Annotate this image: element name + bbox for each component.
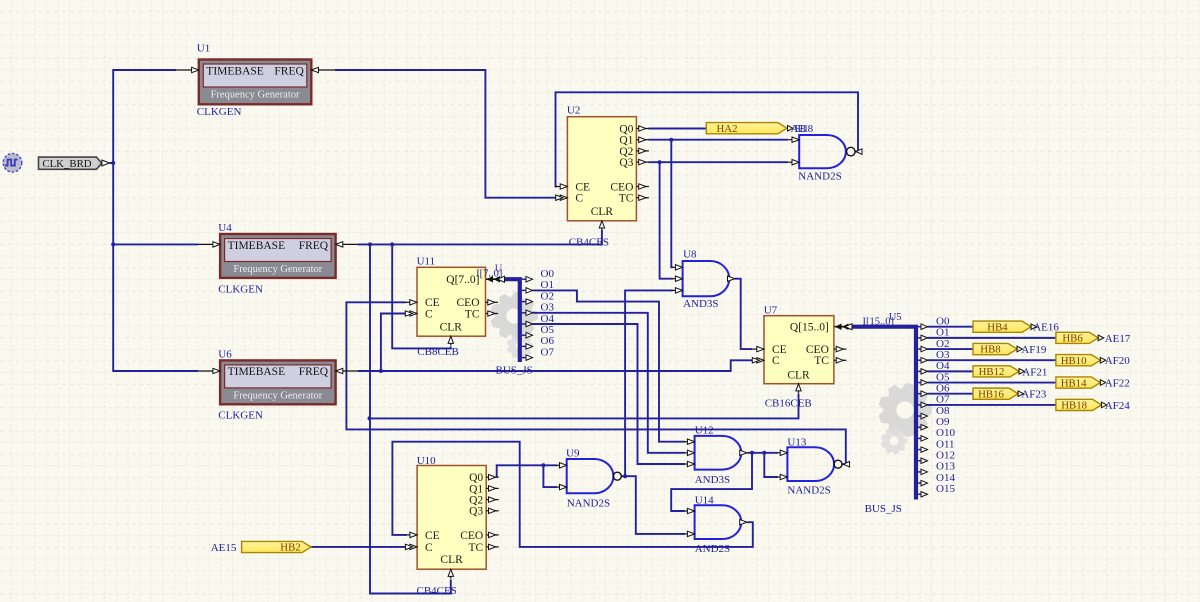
svg-text:TC: TC (814, 355, 829, 367)
svg-text:TIMEBASE: TIMEBASE (206, 65, 263, 77)
svg-text:BUS_JS: BUS_JS (865, 503, 902, 515)
svg-text:CLR: CLR (787, 370, 810, 382)
svg-text:CLKGEN: CLKGEN (197, 106, 242, 118)
svg-text:Frequency Generator: Frequency Generator (211, 90, 300, 101)
svg-text:C: C (425, 542, 433, 554)
svg-text:U2: U2 (567, 105, 580, 117)
svg-text:HB10: HB10 (1061, 355, 1087, 367)
svg-text:HB4: HB4 (987, 321, 1008, 333)
svg-text:Frequency Generator: Frequency Generator (233, 264, 322, 275)
svg-text:O0: O0 (541, 268, 555, 280)
svg-text:U10: U10 (417, 455, 436, 467)
svg-text:BUS_JS: BUS_JS (496, 364, 533, 376)
svg-text:AND3S: AND3S (695, 474, 730, 486)
svg-text:Frequency Generator: Frequency Generator (233, 391, 322, 402)
svg-text:Q1: Q1 (469, 483, 483, 495)
svg-text:FREQ: FREQ (274, 65, 304, 77)
svg-text:CB4CES: CB4CES (569, 236, 609, 248)
svg-text:U12: U12 (695, 425, 714, 437)
svg-text:U6: U6 (218, 349, 232, 361)
svg-text:HB14: HB14 (1061, 377, 1087, 389)
svg-text:U5: U5 (889, 312, 902, 323)
svg-text:NAND2S: NAND2S (567, 498, 610, 510)
svg-text:Q2: Q2 (619, 146, 633, 158)
svg-text:AF20: AF20 (1105, 355, 1131, 367)
svg-text:TC: TC (619, 193, 634, 205)
svg-text:U: U (495, 264, 503, 275)
svg-text:FREQ: FREQ (299, 240, 329, 252)
svg-text:Q1: Q1 (619, 135, 633, 147)
svg-text:AF21: AF21 (1022, 366, 1047, 378)
svg-text:CLK_BRD: CLK_BRD (42, 158, 91, 170)
svg-text:Q3: Q3 (469, 506, 483, 518)
svg-text:HB18: HB18 (1061, 400, 1087, 412)
svg-text:U1: U1 (197, 43, 210, 55)
svg-text:CB4CES: CB4CES (417, 585, 457, 597)
svg-text:AE17: AE17 (1105, 333, 1131, 345)
svg-text:CE: CE (425, 530, 440, 542)
svg-text:O5: O5 (541, 324, 555, 336)
svg-text:AF24: AF24 (1105, 400, 1131, 412)
svg-text:CEO: CEO (460, 530, 483, 542)
svg-text:CLR: CLR (440, 321, 463, 333)
svg-text:CEO: CEO (806, 344, 829, 356)
svg-text:U14: U14 (695, 495, 714, 507)
svg-text:HB12: HB12 (979, 366, 1005, 378)
svg-text:O6: O6 (541, 335, 555, 347)
svg-text:TIMEBASE: TIMEBASE (228, 240, 286, 252)
svg-text:CE: CE (575, 181, 590, 193)
svg-text:CE: CE (425, 297, 440, 309)
svg-text:U7: U7 (764, 305, 778, 317)
svg-text:Q2: Q2 (469, 495, 483, 507)
svg-text:AF22: AF22 (1105, 377, 1130, 389)
svg-text:U4: U4 (218, 222, 232, 234)
svg-text:O2: O2 (541, 290, 554, 302)
svg-text:FREQ: FREQ (299, 366, 329, 378)
svg-text:C: C (575, 193, 583, 205)
svg-text:C: C (425, 308, 433, 320)
svg-text:NAND2S: NAND2S (787, 485, 830, 497)
svg-text:HB2: HB2 (280, 542, 300, 554)
svg-text:CEO: CEO (610, 181, 633, 193)
svg-text:CB16CEB: CB16CEB (765, 398, 812, 410)
svg-text:AF19: AF19 (1021, 344, 1047, 356)
svg-text:U13: U13 (787, 437, 806, 449)
svg-text:U8: U8 (683, 249, 697, 261)
svg-text:Q0: Q0 (619, 123, 633, 135)
svg-text:CE: CE (772, 344, 787, 356)
svg-text:CB8CEB: CB8CEB (417, 346, 459, 358)
svg-text:HB16: HB16 (978, 388, 1004, 400)
svg-text:HA2: HA2 (717, 123, 738, 135)
svg-text:O3: O3 (541, 302, 555, 314)
svg-text:HB6: HB6 (1062, 333, 1083, 345)
svg-text:O7: O7 (541, 346, 555, 358)
svg-text:CLKGEN: CLKGEN (218, 284, 263, 296)
svg-text:Q0: Q0 (469, 472, 483, 484)
svg-text:CLKGEN: CLKGEN (218, 410, 263, 422)
svg-text:AND3S: AND3S (683, 298, 718, 310)
svg-text:NAND2S: NAND2S (798, 171, 841, 183)
svg-text:E8: E8 (795, 123, 807, 135)
svg-text:HB8: HB8 (980, 344, 1000, 356)
svg-text:TC: TC (465, 308, 480, 320)
svg-text:O4: O4 (541, 313, 555, 325)
svg-text:CLR: CLR (591, 206, 614, 218)
svg-text:CLR: CLR (440, 554, 463, 566)
svg-text:Q[7..0]: Q[7..0] (446, 274, 479, 286)
svg-text:AF23: AF23 (1021, 389, 1047, 401)
svg-text:U9: U9 (566, 448, 580, 460)
svg-text:TIMEBASE: TIMEBASE (228, 366, 286, 378)
svg-text:U11: U11 (417, 256, 436, 268)
svg-text:TC: TC (468, 542, 483, 554)
svg-text:Q[15..0]: Q[15..0] (790, 322, 829, 334)
svg-text:AND2S: AND2S (695, 543, 730, 555)
svg-text:O15: O15 (936, 483, 955, 495)
svg-text:CEO: CEO (457, 297, 480, 309)
svg-text:O1: O1 (541, 279, 554, 291)
svg-text:Q3: Q3 (619, 157, 633, 169)
svg-text:C: C (772, 355, 780, 367)
svg-text:AE15: AE15 (211, 542, 237, 554)
